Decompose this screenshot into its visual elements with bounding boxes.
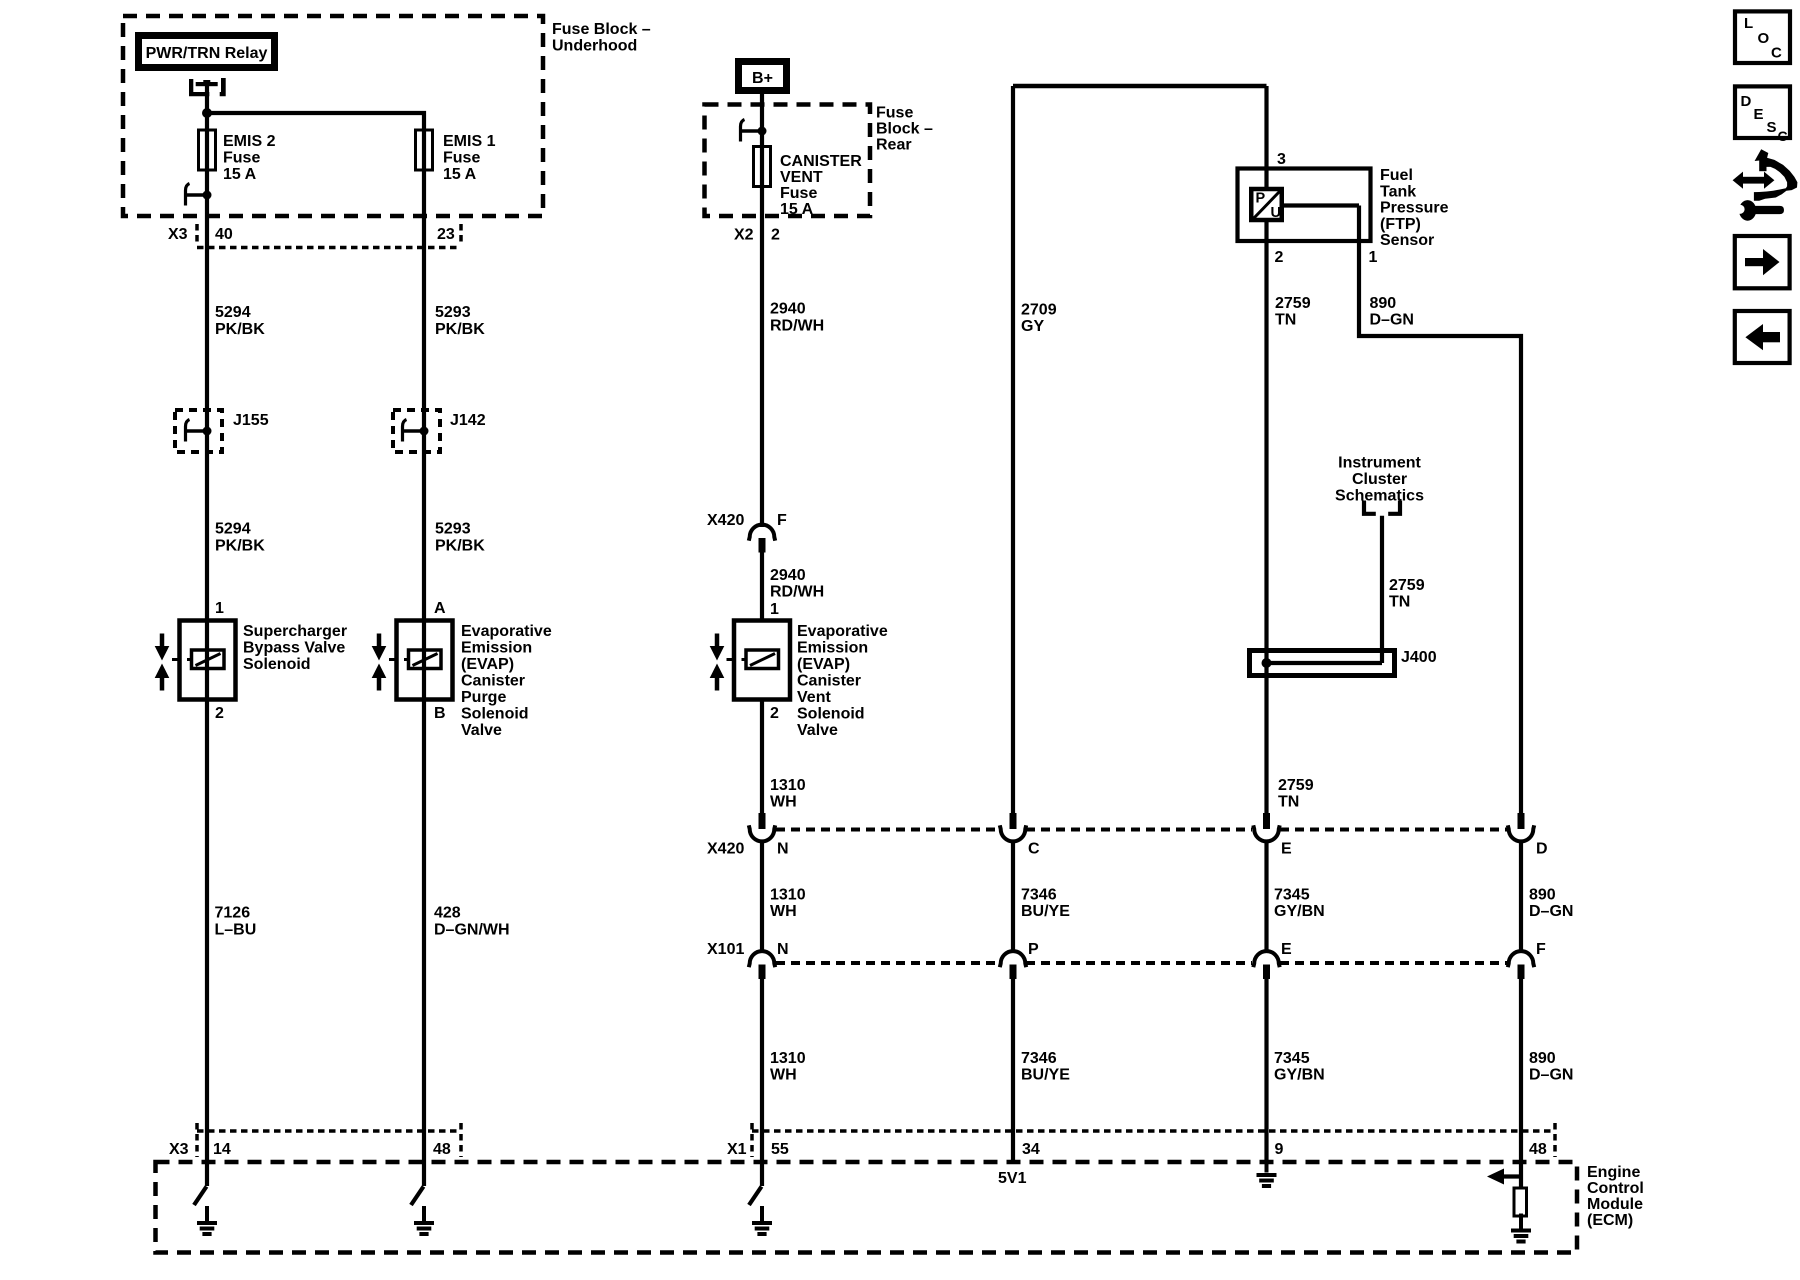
svg-text:L: L <box>1744 15 1753 32</box>
svg-text:E: E <box>1281 841 1292 858</box>
svg-text:9: 9 <box>1275 1141 1284 1158</box>
svg-text:PWR/TRN Relay: PWR/TRN Relay <box>146 45 268 62</box>
LOC navigation icon <box>1735 11 1790 63</box>
svg-text:Solenoid: Solenoid <box>797 706 865 723</box>
ECM internal resistor at pin 48 <box>1514 1188 1527 1216</box>
wire 1310 WH (X101 to ECM 55) <box>760 979 764 1186</box>
B+ battery feed label box <box>739 62 787 91</box>
svg-text:Schematics: Schematics <box>1335 488 1424 505</box>
splice J400 <box>1250 651 1395 676</box>
svg-text:BU/YE: BU/YE <box>1021 903 1070 920</box>
svg-text:D: D <box>1536 841 1548 858</box>
svg-text:F: F <box>777 512 787 529</box>
svg-text:Emission: Emission <box>797 640 868 657</box>
svg-text:48: 48 <box>1529 1141 1547 1158</box>
svg-text:C: C <box>1778 128 1788 144</box>
svg-text:2759: 2759 <box>1275 295 1311 312</box>
wire: top feed from GY column to FTP pin 3 <box>1013 84 1267 89</box>
svg-text:5293: 5293 <box>435 304 471 321</box>
svg-text:J400: J400 <box>1401 649 1437 666</box>
svg-text:Canister: Canister <box>797 673 861 690</box>
svg-text:PK/BK: PK/BK <box>435 321 485 338</box>
wire 890 D-GN from FTP pin 1 with jog to column F <box>1359 206 1521 815</box>
Fuse Block - Underhood enclosure <box>123 16 543 216</box>
svg-text:2709: 2709 <box>1021 302 1057 319</box>
EVAP canister purge solenoid valve <box>389 621 453 700</box>
wire 2759 TN column E from FTP pin 2 <box>1264 222 1268 814</box>
svg-text:2759: 2759 <box>1389 577 1425 594</box>
svg-text:48: 48 <box>433 1141 451 1158</box>
svg-text:L–BU: L–BU <box>215 922 257 939</box>
svg-text:D–GN/WH: D–GN/WH <box>434 922 510 939</box>
svg-text:A: A <box>434 600 446 617</box>
svg-text:(ECM): (ECM) <box>1587 1212 1633 1229</box>
svg-text:Block –: Block – <box>876 121 933 138</box>
svg-text:(FTP): (FTP) <box>1380 216 1421 233</box>
svg-text:WH: WH <box>770 903 797 920</box>
splice J155 <box>175 410 222 452</box>
svg-text:GY/BN: GY/BN <box>1274 903 1325 920</box>
svg-text:1310: 1310 <box>770 1050 806 1067</box>
wire: X420 F to vent solenoid <box>760 551 764 621</box>
svg-text:Engine: Engine <box>1587 1164 1640 1181</box>
back navigation icon <box>1735 311 1790 363</box>
wire: P/U output to FTP pin 1 <box>1284 203 1359 207</box>
fuse block terminal clip below EMIS 2 fuse <box>186 184 212 206</box>
svg-text:Instrument: Instrument <box>1338 455 1421 472</box>
connector X420 pin C <box>1000 813 1026 841</box>
svg-text:Fuse: Fuse <box>443 150 480 167</box>
DESC navigation icon <box>1735 86 1790 138</box>
Fuel Tank Pressure (FTP) Sensor box <box>1238 169 1371 242</box>
svg-text:5294: 5294 <box>215 521 251 538</box>
svg-text:X3: X3 <box>168 226 188 243</box>
svg-text:PK/BK: PK/BK <box>215 321 265 338</box>
wire 890 D-GN (X420 to X101) <box>1519 840 1523 953</box>
wire 7345 GY/BN (X420 to X101) <box>1264 840 1268 953</box>
svg-text:CANISTER: CANISTER <box>780 153 862 170</box>
svg-text:GY: GY <box>1021 318 1044 335</box>
svg-text:O: O <box>1758 30 1770 47</box>
svg-text:RD/WH: RD/WH <box>770 318 824 335</box>
svg-text:1: 1 <box>770 601 779 618</box>
svg-text:Supercharger: Supercharger <box>243 623 347 640</box>
connector X420 pin D <box>1508 813 1534 841</box>
svg-text:B: B <box>434 705 446 722</box>
svg-text:P: P <box>1028 941 1039 958</box>
svg-text:E: E <box>1281 941 1292 958</box>
fuse block terminal clip at canister vent fuse <box>741 120 767 142</box>
harness routing icon (double arrow, curve, wrench) <box>1733 149 1798 221</box>
svg-text:D–GN: D–GN <box>1529 903 1573 920</box>
wire: relay output down (column A) <box>205 86 209 1186</box>
svg-text:Fuse Block –: Fuse Block – <box>552 21 651 38</box>
svg-text:Fuse: Fuse <box>223 150 260 167</box>
svg-text:C: C <box>1028 841 1040 858</box>
wire: B+ down column C <box>760 94 764 527</box>
svg-text:Module: Module <box>1587 1196 1643 1213</box>
svg-text:(EVAP): (EVAP) <box>797 656 850 673</box>
svg-text:2940: 2940 <box>770 567 806 584</box>
wire 890 D-GN (X101 to ECM 48) <box>1519 979 1523 1188</box>
svg-text:VENT: VENT <box>780 169 823 186</box>
svg-text:Canister: Canister <box>461 673 525 690</box>
svg-text:3: 3 <box>1277 151 1286 168</box>
svg-text:WH: WH <box>770 1067 797 1084</box>
Fuse Block - Rear enclosure <box>705 105 871 217</box>
wire 7346 BU/YE (X101 to ECM 34) <box>1011 979 1015 1164</box>
svg-text:890: 890 <box>1529 1050 1556 1067</box>
connector X420 pin E <box>1253 813 1279 841</box>
connector X101 pin N <box>749 951 775 979</box>
wire 7345 GY/BN (X101 to ECM 9) <box>1264 979 1268 1161</box>
svg-text:2: 2 <box>215 705 224 722</box>
svg-text:15 A: 15 A <box>443 166 477 183</box>
svg-text:F: F <box>1536 941 1546 958</box>
svg-text:Fuel: Fuel <box>1380 167 1413 184</box>
svg-text:C: C <box>1771 45 1782 62</box>
svg-text:1: 1 <box>215 600 224 617</box>
svg-text:7346: 7346 <box>1021 1050 1057 1067</box>
svg-text:PK/BK: PK/BK <box>435 538 485 555</box>
svg-text:U: U <box>1271 205 1281 221</box>
svg-text:2: 2 <box>771 227 780 244</box>
svg-text:15 A: 15 A <box>780 201 814 218</box>
svg-text:Emission: Emission <box>461 640 532 657</box>
svg-text:15 A: 15 A <box>223 166 257 183</box>
svg-text:Purge: Purge <box>461 689 506 706</box>
connector X101 pin F <box>1508 951 1534 979</box>
svg-text:Valve: Valve <box>797 722 838 739</box>
forward navigation icon <box>1735 236 1790 288</box>
ECM internal switch blade at pin 55 <box>749 1187 762 1206</box>
svg-text:1310: 1310 <box>770 777 806 794</box>
svg-text:Evaporative: Evaporative <box>461 623 552 640</box>
svg-text:TN: TN <box>1389 594 1410 611</box>
svg-text:TN: TN <box>1275 312 1296 329</box>
svg-text:RD/WH: RD/WH <box>770 584 824 601</box>
svg-text:Vent: Vent <box>797 689 831 706</box>
ground inside ECM at pin 48 (X3) <box>414 1206 434 1234</box>
svg-text:2759: 2759 <box>1278 777 1314 794</box>
svg-text:Solenoid: Solenoid <box>243 656 311 673</box>
svg-text:428: 428 <box>434 905 461 922</box>
svg-text:Tank: Tank <box>1380 183 1416 200</box>
svg-text:Fuse: Fuse <box>876 105 913 122</box>
supercharger bypass valve solenoid <box>172 621 236 700</box>
svg-text:D: D <box>1741 93 1752 110</box>
EVAP canister vent solenoid valve <box>727 621 791 700</box>
svg-text:1310: 1310 <box>770 887 806 904</box>
wire 1310 WH (X420 to X101) <box>760 840 764 953</box>
svg-text:E: E <box>1754 106 1764 123</box>
svg-text:Evaporative: Evaporative <box>797 623 888 640</box>
connector X420 pin N <box>749 813 775 841</box>
svg-text:X2: X2 <box>734 227 754 244</box>
svg-text:GY/BN: GY/BN <box>1274 1067 1325 1084</box>
wire: junction to EMIS 1 fuse (column B feed) <box>205 113 424 1186</box>
ground inside ECM at pin 55 <box>752 1206 772 1234</box>
svg-text:7126: 7126 <box>215 905 251 922</box>
ground inside ECM at pin 14 <box>197 1206 217 1234</box>
svg-text:Sensor: Sensor <box>1380 232 1434 249</box>
svg-text:X420: X420 <box>707 841 744 858</box>
svg-text:Rear: Rear <box>876 137 912 154</box>
svg-text:34: 34 <box>1022 1141 1040 1158</box>
svg-text:X1: X1 <box>727 1141 747 1158</box>
svg-text:Underhood: Underhood <box>552 38 637 55</box>
svg-text:Control: Control <box>1587 1180 1644 1197</box>
svg-text:7345: 7345 <box>1274 1050 1310 1067</box>
svg-text:2940: 2940 <box>770 301 806 318</box>
svg-text:Bypass Valve: Bypass Valve <box>243 640 345 657</box>
svg-text:J155: J155 <box>233 412 269 429</box>
wire: FTP pin 3 into sensor <box>1264 86 1268 189</box>
ECM internal switch blade at pin 48 (X3) <box>411 1187 424 1206</box>
svg-text:X3: X3 <box>169 1141 189 1158</box>
svg-text:J142: J142 <box>450 412 486 429</box>
fuse CANISTER VENT 15A <box>754 147 771 187</box>
splice J142 <box>393 410 440 452</box>
wire 2709 GY column D <box>1011 86 1015 814</box>
svg-text:Fuse: Fuse <box>780 185 817 202</box>
PWR/TRN Relay label box <box>139 36 275 68</box>
connector X101 pin P <box>1000 951 1026 979</box>
svg-text:PK/BK: PK/BK <box>215 538 265 555</box>
svg-text:2: 2 <box>1275 249 1284 266</box>
svg-text:S: S <box>1767 119 1777 136</box>
wire: vent solenoid down column C <box>760 700 764 815</box>
ground inside ECM at pin 9 <box>1257 1161 1277 1187</box>
svg-text:7346: 7346 <box>1021 887 1057 904</box>
svg-text:Solenoid: Solenoid <box>461 706 529 723</box>
svg-text:7345: 7345 <box>1274 887 1310 904</box>
svg-text:D–GN: D–GN <box>1529 1067 1573 1084</box>
svg-text:EMIS 2: EMIS 2 <box>223 133 276 150</box>
ECM internal arrow at pin 48 <box>1502 1174 1521 1178</box>
svg-text:5294: 5294 <box>215 304 251 321</box>
svg-text:23: 23 <box>437 226 455 243</box>
svg-text:P: P <box>1256 191 1266 207</box>
svg-text:BU/YE: BU/YE <box>1021 1067 1070 1084</box>
P/U pressure transducer symbol <box>1251 189 1282 220</box>
svg-text:N: N <box>777 841 789 858</box>
svg-text:B+: B+ <box>752 70 773 87</box>
in-line connector X101 row dashed line <box>776 961 1000 965</box>
Engine Control Module (ECM) enclosure <box>156 1162 1578 1253</box>
svg-text:5293: 5293 <box>435 521 471 538</box>
svg-text:2: 2 <box>770 705 779 722</box>
svg-text:N: N <box>777 941 789 958</box>
svg-text:40: 40 <box>215 226 233 243</box>
svg-text:TN: TN <box>1278 794 1299 811</box>
svg-text:Cluster: Cluster <box>1352 471 1407 488</box>
svg-text:(EVAP): (EVAP) <box>461 656 514 673</box>
svg-text:14: 14 <box>213 1141 231 1158</box>
connector X101 pin E <box>1253 951 1279 979</box>
svg-text:5V1: 5V1 <box>998 1170 1027 1187</box>
svg-text:Pressure: Pressure <box>1380 200 1449 217</box>
svg-text:55: 55 <box>771 1141 789 1158</box>
in-line connector X420 row dashed line <box>776 828 1000 832</box>
instrument cluster connector bracket <box>1364 501 1376 514</box>
svg-text:1: 1 <box>1369 249 1378 266</box>
svg-text:890: 890 <box>1529 887 1556 904</box>
svg-text:EMIS 1: EMIS 1 <box>443 133 496 150</box>
svg-text:WH: WH <box>770 794 797 811</box>
svg-text:X101: X101 <box>707 941 744 958</box>
svg-text:Valve: Valve <box>461 722 502 739</box>
wire: instrument cluster drop to J400 <box>1380 516 1384 663</box>
fuse EMIS 1 15A <box>416 130 433 170</box>
ground inside ECM below resistor <box>1511 1214 1531 1242</box>
ECM internal switch blade at pin 14 <box>194 1187 207 1206</box>
relay K contact symbol <box>189 79 209 96</box>
svg-text:D–GN: D–GN <box>1370 312 1414 329</box>
junction node at relay feed <box>202 108 212 118</box>
wire 7346 BU/YE (X420 to X101) <box>1011 840 1015 953</box>
svg-text:X420: X420 <box>707 512 744 529</box>
svg-text:890: 890 <box>1370 295 1397 312</box>
fuse EMIS 2 15A <box>199 130 216 170</box>
